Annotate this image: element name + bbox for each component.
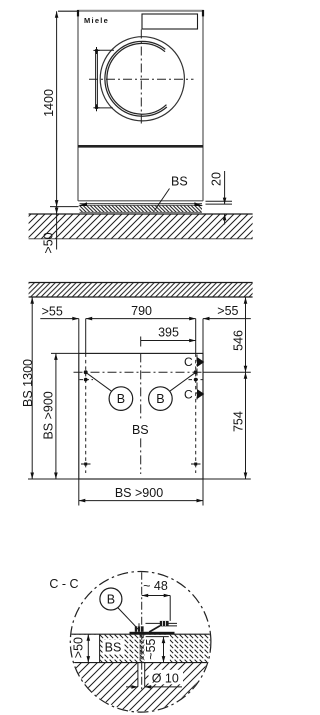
hatch boundary line bbox=[99, 634, 101, 662]
door centerline horizontal bbox=[89, 78, 194, 80]
anchor circle B right bbox=[149, 387, 173, 411]
svg-text:B: B bbox=[117, 392, 125, 406]
door outer circle bbox=[100, 37, 184, 121]
door centerline vertical bbox=[140, 30, 142, 125]
svg-text:>55: >55 bbox=[217, 304, 238, 318]
dim line 790 bbox=[86, 318, 196, 320]
svg-text:~55: ~55 bbox=[144, 638, 158, 659]
anchor dot right 1 bbox=[194, 370, 198, 374]
anchor dot left 2 bbox=[84, 378, 88, 382]
extension line anchor-left above bbox=[85, 319, 87, 354]
plan horizontal centerline bbox=[74, 371, 204, 373]
BS plate hatch (detail) bbox=[70, 634, 211, 662]
detail boundary circle bbox=[70, 572, 211, 713]
corner cross left bbox=[81, 463, 91, 466]
left nut bbox=[135, 626, 144, 632]
B circle detail bbox=[100, 588, 122, 610]
door inner rim arc outer bbox=[105, 41, 167, 116]
leader B detail bbox=[118, 608, 139, 630]
drilled hole right wall bbox=[144, 663, 146, 687]
dim ~48 right extension bbox=[169, 596, 171, 621]
svg-text:790: 790 bbox=[131, 304, 152, 318]
floor surface line bbox=[29, 213, 253, 215]
dim line 395 bbox=[141, 340, 196, 342]
extension plate-bottom left bbox=[28, 478, 79, 480]
dimension 1400 extension line top bbox=[58, 10, 77, 12]
dim ~55 line bbox=[163, 637, 165, 663]
knockout between bolt and ~55 dim bbox=[145, 635, 170, 662]
svg-text:BS 1300: BS 1300 bbox=[21, 359, 35, 407]
BS strip right wedge bbox=[194, 202, 203, 206]
arrow left at plate-right bbox=[203, 317, 210, 321]
BS plate top line bbox=[70, 633, 211, 635]
svg-text:>50: >50 bbox=[42, 232, 56, 253]
anchor dashed line right bbox=[195, 353, 197, 473]
extension lines below plate bbox=[78, 479, 80, 506]
machine left edge bbox=[77, 11, 79, 201]
drilled hole left wall bbox=[137, 663, 139, 687]
svg-text:BS: BS bbox=[132, 423, 149, 437]
arrow right at plate-left bbox=[72, 317, 79, 321]
machine bottom line bbox=[78, 200, 203, 202]
section arrow C top bbox=[197, 357, 204, 367]
floor slab bottom line bbox=[29, 238, 253, 240]
knockout for >50 dim bbox=[69, 635, 100, 662]
wall hatch band bbox=[29, 283, 253, 298]
corner tick right bbox=[202, 10, 204, 16]
dimension 20 extension lines bbox=[206, 200, 233, 202]
dim line left segment bbox=[40, 318, 79, 320]
extension plate-bottom right bbox=[203, 478, 251, 480]
arrow right 790 bbox=[189, 317, 196, 321]
dimension 20 line upper bbox=[224, 171, 226, 204]
extension line plate-right above bbox=[202, 319, 204, 354]
BS text knockout (detail) bbox=[103, 640, 125, 655]
arrow down 1400 bbox=[55, 200, 59, 207]
second-row dashed left bbox=[80, 379, 94, 381]
extension line anchor-right above bbox=[195, 319, 197, 354]
control panel rectangle bbox=[142, 14, 198, 29]
section line C-C bbox=[196, 355, 198, 400]
knockout for O10 text bbox=[149, 670, 184, 685]
svg-text:>50: >50 bbox=[71, 637, 85, 658]
dim 754 line bbox=[245, 372, 247, 479]
dim >50 line bbox=[87, 634, 89, 662]
BS strip left wedge bbox=[78, 202, 87, 206]
knockout hole interior bbox=[138, 663, 145, 688]
plinth divider thick line bbox=[78, 145, 203, 148]
floor hatch (detail) bbox=[70, 663, 212, 713]
bracket baseplate bar bbox=[130, 632, 175, 635]
wall bottom line bbox=[29, 296, 253, 298]
svg-text:BS: BS bbox=[171, 175, 188, 189]
arrow up 1400 bbox=[55, 11, 59, 18]
dim BS >900 left line bbox=[55, 353, 57, 479]
svg-text:Miele: Miele bbox=[84, 16, 108, 25]
leader B right bbox=[170, 372, 196, 391]
svg-text:BS: BS bbox=[105, 640, 122, 654]
arrow up 20 bbox=[223, 214, 227, 221]
dim line right segment bbox=[203, 318, 251, 320]
svg-text:Ø 10: Ø 10 bbox=[152, 671, 179, 685]
hinge bolt mark top bbox=[93, 47, 99, 54]
plan vertical centerline bbox=[140, 353, 142, 474]
svg-text:BS >900: BS >900 bbox=[115, 486, 163, 500]
dim ~48 line bbox=[142, 595, 171, 597]
anchor dashed line left bbox=[85, 353, 87, 473]
BS leader line bbox=[155, 189, 170, 211]
right nut bbox=[160, 621, 169, 626]
BS plate rectangle bbox=[79, 353, 203, 479]
bracket arm top line bbox=[160, 625, 178, 627]
svg-text:754: 754 bbox=[231, 411, 245, 432]
leader B left bbox=[86, 372, 112, 391]
anchor circle B left bbox=[109, 387, 133, 411]
corner tick left bbox=[77, 10, 79, 16]
extension plate-top to left bbox=[51, 352, 79, 354]
hinge bolt mark bottom bbox=[93, 104, 99, 111]
BS base strip top line bbox=[80, 203, 203, 205]
corner cross right bbox=[191, 463, 201, 466]
second-row dashed right bbox=[189, 379, 204, 381]
arrow right 395 bbox=[189, 339, 196, 343]
anchor dot left 1 bbox=[84, 370, 88, 374]
dim BS >900 bottom line bbox=[79, 500, 203, 502]
section arrow C bottom bbox=[197, 389, 204, 399]
svg-text:>55: >55 bbox=[42, 305, 63, 319]
dimension 1400 extension line bottom bbox=[50, 206, 79, 208]
svg-text:C: C bbox=[184, 387, 193, 401]
dim ~55 top extension bbox=[146, 636, 169, 638]
dimension 20 line lower bbox=[224, 214, 226, 225]
machine right edge bbox=[202, 11, 204, 201]
wall top line bbox=[29, 282, 253, 284]
arrow down floor bbox=[55, 208, 59, 215]
bracket flange top line bbox=[146, 622, 178, 624]
dim O10 left line bbox=[126, 686, 138, 688]
svg-text:C - C: C - C bbox=[49, 577, 78, 591]
dim 546 line bbox=[245, 297, 247, 372]
svg-text:BS >900: BS >900 bbox=[41, 391, 55, 439]
bolt shaft dashed right bbox=[142, 634, 144, 662]
arrow down 20 bbox=[223, 198, 227, 205]
svg-text:~ 48: ~ 48 bbox=[143, 579, 168, 593]
dim BS 1300 line bbox=[31, 297, 33, 479]
extension line plate-left above bbox=[78, 319, 80, 354]
bracket diagonal bbox=[149, 626, 160, 632]
hinge plate bbox=[95, 50, 114, 108]
floor slab hatch (front view) bbox=[29, 214, 253, 239]
anchor dot right 2 bbox=[194, 378, 198, 382]
anchor centerline vertical bbox=[141, 572, 143, 691]
svg-text:B: B bbox=[107, 593, 115, 607]
svg-text:20: 20 bbox=[210, 172, 224, 186]
extension anchor-row right bbox=[203, 371, 251, 373]
machine top edge bbox=[77, 10, 203, 12]
door inner rim arc inner bbox=[107, 43, 167, 114]
svg-text:B: B bbox=[156, 392, 164, 406]
arrow left 790 bbox=[86, 317, 93, 321]
svg-text:395: 395 bbox=[158, 325, 179, 339]
BS base strip hatch bbox=[80, 205, 203, 212]
svg-text:546: 546 bbox=[231, 330, 245, 351]
dim O10 right line bbox=[145, 686, 182, 688]
dimension 1400 line bbox=[56, 11, 58, 249]
BS plate bottom / floor line bbox=[70, 662, 211, 664]
dim 395 tick at centerline bbox=[140, 337, 142, 347]
BS text knockout bbox=[129, 421, 153, 437]
svg-text:1400: 1400 bbox=[42, 89, 56, 117]
left bolt stub bbox=[138, 623, 140, 626]
svg-text:C: C bbox=[184, 355, 193, 369]
bolt shaft dashed left bbox=[139, 634, 141, 662]
